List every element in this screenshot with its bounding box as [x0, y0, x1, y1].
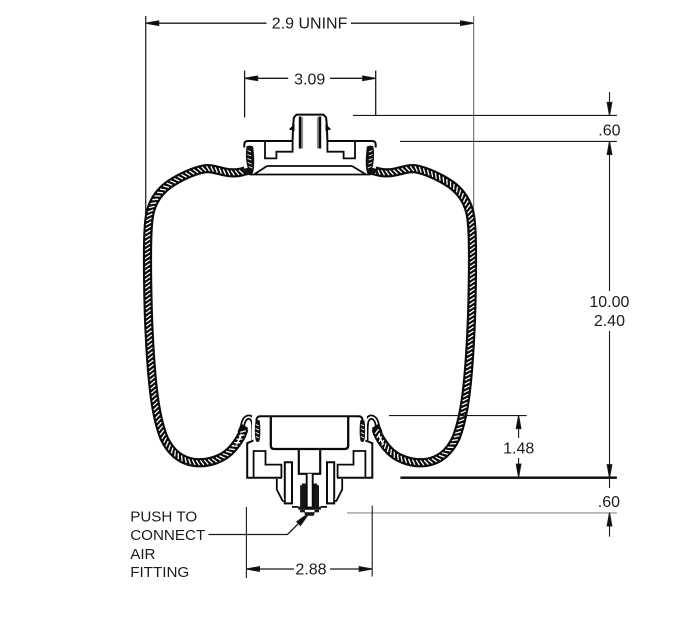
- svg-text:AIR: AIR: [130, 546, 155, 563]
- svg-text:FITTING: FITTING: [130, 564, 189, 581]
- svg-text:.60: .60: [598, 122, 620, 139]
- svg-text:2.40: 2.40: [594, 313, 625, 330]
- svg-text:.60: .60: [598, 494, 620, 511]
- svg-text:PUSH TO: PUSH TO: [130, 508, 197, 525]
- svg-text:2.9 UNINF: 2.9 UNINF: [272, 16, 348, 33]
- svg-text:CONNECT: CONNECT: [130, 527, 205, 544]
- svg-text:1.48: 1.48: [503, 440, 534, 457]
- svg-text:10.00: 10.00: [589, 294, 629, 311]
- svg-text:2.88: 2.88: [295, 562, 326, 579]
- svg-text:3.09: 3.09: [294, 72, 325, 89]
